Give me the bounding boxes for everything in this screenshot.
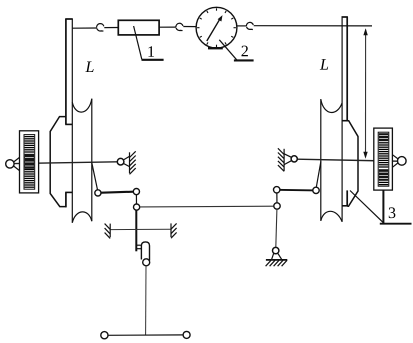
- right band bottom break arc: [321, 211, 342, 221]
- label 2: [242, 46, 248, 57]
- left axle wall support: [117, 151, 135, 174]
- label 3: [389, 207, 396, 218]
- fork to roller: [136, 245, 141, 249]
- ground line: [266, 259, 287, 261]
- left pulley hub (hexagon profile): [50, 117, 65, 207]
- left band outer edge: [91, 99, 93, 222]
- vertical link through B,C: [135, 194, 137, 252]
- wire segment: [237, 25, 247, 27]
- left column top cap: [65, 18, 73, 20]
- label 3 underline: [380, 223, 412, 225]
- left axle: [14, 162, 117, 164]
- joint D: [274, 187, 280, 193]
- roller pin joint: [143, 259, 150, 266]
- right axle: [297, 159, 398, 161]
- left scale device body: [20, 131, 39, 193]
- label 1: [148, 46, 154, 57]
- right pulley hub (hexagon profile): [347, 121, 358, 207]
- right scale device graduations: [378, 132, 389, 186]
- left scale device graduations: [24, 135, 35, 190]
- label L right: [320, 59, 328, 69]
- galvanometer base chord: [208, 47, 223, 49]
- left column step cap lower: [65, 191, 72, 193]
- left crank diagonal: [92, 163, 98, 190]
- right column top cap: [342, 16, 348, 18]
- left column outer (thick) edge lower: [65, 192, 67, 207]
- rocker rod F-G: [276, 209, 277, 247]
- galvanometer needle: [207, 15, 223, 41]
- right scale device stub: [382, 190, 384, 223]
- leader line to label 2: [219, 40, 237, 60]
- left band top break arc: [72, 99, 92, 112]
- right scale device body: [374, 128, 393, 190]
- wire segment: [159, 26, 176, 28]
- slider guide rail: [110, 228, 171, 230]
- joint E: [313, 187, 319, 193]
- joint B: [133, 189, 139, 195]
- joint C: [134, 204, 140, 210]
- label L left: [85, 62, 93, 72]
- right band top break arc: [321, 99, 342, 112]
- roller cylinder: [141, 242, 149, 261]
- right band outer edge: [320, 99, 322, 221]
- right crank diagonal: [316, 161, 321, 188]
- left band bottom break arc: [72, 212, 92, 223]
- top wire right segment: [254, 25, 372, 27]
- bottom bar right joint: [183, 331, 190, 338]
- guide wall right: [171, 223, 177, 238]
- long connecting rod C-F: [140, 205, 274, 208]
- guide wall left: [105, 224, 111, 239]
- link A-B: [98, 192, 136, 193]
- left column inner edge: [71, 19, 73, 223]
- label 2 underline: [234, 59, 254, 61]
- galvanometer 2 body: [196, 7, 237, 48]
- label 1 underline: [142, 59, 164, 61]
- bottom bar left joint: [101, 332, 108, 339]
- hook joint H1: [97, 24, 104, 31]
- hook joint H2: [176, 23, 183, 30]
- left eyelet: [6, 157, 20, 170]
- leader line to label 1: [134, 26, 142, 59]
- galvanometer dial ticks: [197, 8, 236, 47]
- right column outer (thick) edge upper: [346, 17, 348, 121]
- link D-E: [277, 189, 316, 192]
- left column step cap upper: [65, 123, 72, 125]
- left column outer (thick) edge upper: [65, 19, 67, 124]
- hook joint H3: [246, 22, 253, 29]
- link D-F: [276, 190, 278, 206]
- right axle wall support: [278, 148, 297, 171]
- top wire left segment: [72, 27, 96, 29]
- component 1 (resistor box): [118, 20, 159, 35]
- ground hatching: [266, 260, 287, 266]
- wire segment: [183, 26, 196, 28]
- label 3 leader diagonal: [350, 191, 384, 224]
- right column step cap lower: [342, 205, 348, 207]
- wire segment: [104, 27, 118, 29]
- joint F: [274, 203, 280, 209]
- bottom bar: [105, 334, 187, 336]
- right column step cap upper: [342, 120, 348, 122]
- ground pivot G: [272, 247, 282, 259]
- right column outer (thick) edge lower: [346, 190, 348, 205]
- vertical dimension arrow: [363, 28, 368, 158]
- hanging rod: [145, 266, 147, 335]
- joint A: [95, 190, 101, 196]
- right eyelet: [392, 155, 406, 168]
- right column inner edge: [341, 17, 343, 222]
